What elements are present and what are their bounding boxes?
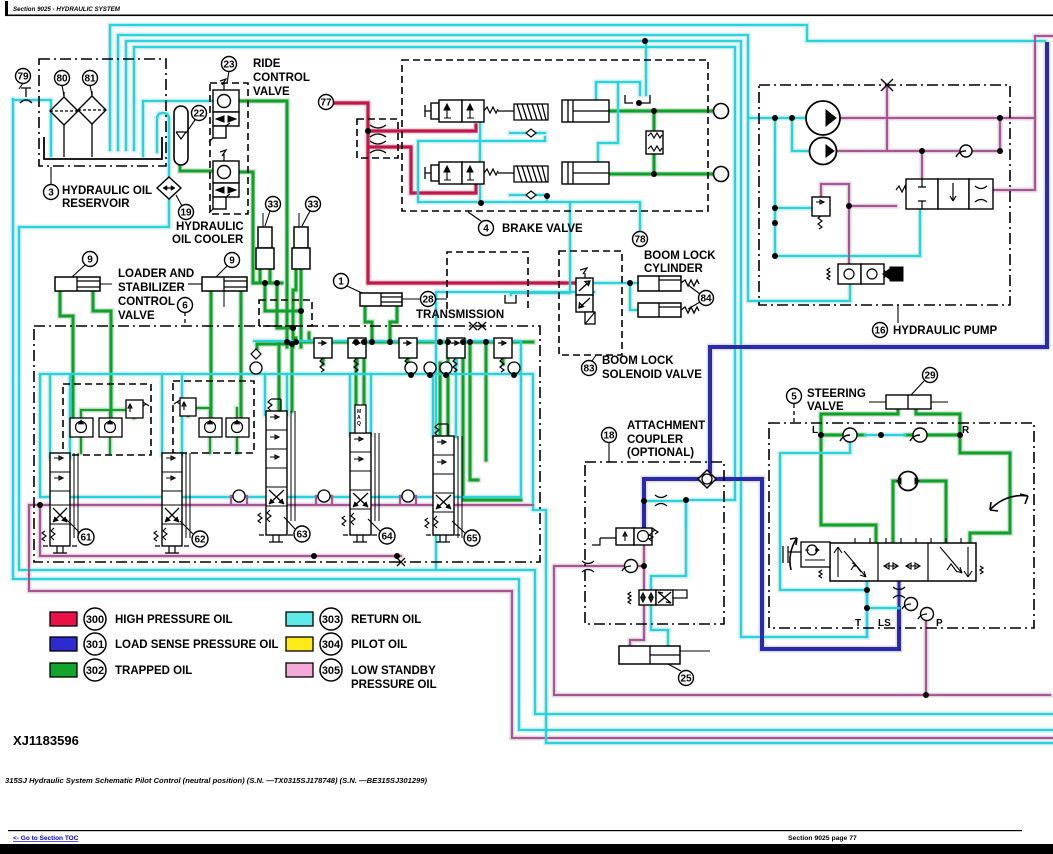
node callout 9 left xyxy=(72,265,85,277)
node callout 16 xyxy=(897,305,899,323)
node 61 pilot sub-box xyxy=(63,384,151,455)
node callout 6 xyxy=(184,312,186,326)
wire pink standby risers xyxy=(60,505,444,520)
valve stack 63 xyxy=(258,399,295,542)
svg-text:L: L xyxy=(812,425,818,436)
valve coupler pilot xyxy=(592,528,658,545)
wire green accumulator to ride 2 xyxy=(180,165,214,171)
svg-text:304: 304 xyxy=(322,639,341,651)
valve stack 62 xyxy=(154,453,190,553)
wire high pressure to lower brake xyxy=(370,147,476,193)
svg-text:25: 25 xyxy=(680,674,692,685)
wire green 61 pilot feeds xyxy=(81,410,134,453)
node callout 78 xyxy=(633,232,648,247)
node callout 83 xyxy=(592,355,596,361)
node attachment coupler box xyxy=(585,462,724,624)
svg-text:65: 65 xyxy=(466,534,478,545)
valve trans relief row xyxy=(314,338,512,372)
node hydraulic oil reservoir box xyxy=(39,59,166,166)
valve ride control lower xyxy=(209,150,239,213)
valve pump unloader xyxy=(827,264,903,284)
wire load sense coupler to LS port xyxy=(716,479,899,649)
wire green ride control 1 down xyxy=(238,101,287,347)
svg-text:RIDE: RIDE xyxy=(253,58,281,70)
cylinder boom lock lower xyxy=(638,303,699,317)
valve stack 61 xyxy=(42,453,78,553)
svg-text:BOOM LOCK: BOOM LOCK xyxy=(644,250,716,262)
svg-text:9: 9 xyxy=(87,255,93,266)
node callout 65 xyxy=(452,521,465,533)
node callout 25 xyxy=(668,664,681,671)
node 61 pilot shuttles xyxy=(70,400,149,437)
svg-text:3: 3 xyxy=(48,188,54,199)
svg-text:R: R xyxy=(962,425,970,436)
svg-text:80: 80 xyxy=(56,74,68,85)
svg-text:HYDRAULIC: HYDRAULIC xyxy=(176,221,244,233)
valve brake lower unit xyxy=(425,162,609,184)
node transmission port bracket xyxy=(505,295,516,303)
valve ride control upper 23 xyxy=(209,79,239,142)
wire green ride control 2 down xyxy=(238,172,253,283)
wire left return rail 2 from cooler xyxy=(19,119,1053,714)
wire return bundle B to pump suction xyxy=(118,35,850,301)
node pink restrictor xyxy=(582,561,594,572)
node 62 pilot sub-box xyxy=(173,381,254,453)
node steering check P1 xyxy=(905,598,918,611)
node reservoir tank xyxy=(44,137,162,159)
wire green manifold top rail xyxy=(287,338,533,342)
wire load sense to coupler xyxy=(708,347,712,471)
svg-text:(OPTIONAL): (OPTIONAL) xyxy=(627,447,694,459)
svg-text:1: 1 xyxy=(338,277,344,288)
node callout 5 xyxy=(793,404,795,423)
svg-text:RESERVOIR: RESERVOIR xyxy=(62,198,130,210)
svg-text:4: 4 xyxy=(483,224,489,235)
pump gerotor steering xyxy=(899,472,918,491)
wire left return rail 1 xyxy=(13,99,1053,730)
svg-text:6: 6 xyxy=(182,301,188,312)
svg-text:61: 61 xyxy=(80,533,92,544)
svg-text:XJ1183596: XJ1183596 xyxy=(13,733,79,748)
node callout 79 xyxy=(19,83,23,89)
wire green manifold drops 63 xyxy=(279,342,292,411)
valve relief A xyxy=(314,338,332,358)
svg-text:303: 303 xyxy=(322,614,340,626)
svg-text:COUPLER: COUPLER xyxy=(627,434,684,446)
svg-text:VALVE: VALVE xyxy=(807,401,844,413)
svg-text:PRESSURE OIL: PRESSURE OIL xyxy=(351,679,437,691)
node callout 28 xyxy=(402,298,447,300)
node steering arc left xyxy=(790,538,797,570)
node brake valve box xyxy=(402,60,708,211)
node 62 pilot shuttles xyxy=(174,398,249,437)
svg-text:CONTROL: CONTROL xyxy=(118,296,175,308)
svg-text:HIGH PRESSURE OIL: HIGH PRESSURE OIL xyxy=(115,614,233,626)
node plugged ports X xyxy=(469,322,486,330)
node transmission box xyxy=(447,252,528,309)
filter 80 xyxy=(50,92,78,157)
node boom lock solenoid box xyxy=(559,251,622,355)
node steering check R xyxy=(913,428,927,442)
accumulator 22 xyxy=(174,106,188,165)
valve pump compensator xyxy=(896,179,993,209)
node loader control valve box xyxy=(34,326,540,562)
wire low standby steering P drop xyxy=(925,616,927,695)
pump secondary xyxy=(810,138,837,165)
wire return bundle C to steering T xyxy=(126,41,867,637)
node callout 33 right xyxy=(302,211,310,226)
wire green gerotor loop xyxy=(893,481,946,543)
svg-text:83: 83 xyxy=(583,364,595,375)
node legend swatch 305 xyxy=(286,663,313,677)
svg-text:5: 5 xyxy=(791,392,797,403)
wire cyan boom lock to cylinders xyxy=(593,283,638,310)
svg-text:84: 84 xyxy=(700,294,712,305)
svg-text:23: 23 xyxy=(223,60,235,71)
cylinder 25 xyxy=(619,646,710,664)
node oil cooler 19 xyxy=(157,177,181,199)
node coupler check diamond xyxy=(698,470,716,488)
wire cyan brake bottom return xyxy=(418,122,640,231)
wire green brake to wheels bottom xyxy=(609,172,714,175)
svg-text:300: 300 xyxy=(86,614,104,626)
wire magenta pump pressure out xyxy=(832,85,1035,179)
svg-text:81: 81 xyxy=(84,74,96,85)
svg-text:16: 16 xyxy=(874,326,886,337)
wire green steering top R xyxy=(905,433,960,436)
svg-text:18: 18 xyxy=(603,431,615,442)
node callout 1 xyxy=(347,286,362,293)
valve steering main block xyxy=(819,538,983,581)
valve brake upper unit xyxy=(425,100,609,122)
wire high pressure from 77 xyxy=(334,103,476,131)
cylinder 33 left xyxy=(256,213,274,269)
node loader standby checks xyxy=(231,490,416,505)
svg-text:19: 19 xyxy=(180,208,192,219)
cylinder 33 right xyxy=(292,213,310,269)
svg-text:78: 78 xyxy=(634,235,646,246)
node restrictor pair 77 xyxy=(370,125,386,153)
svg-text:STABILIZER: STABILIZER xyxy=(118,282,186,294)
svg-text:HYDRAULIC OIL: HYDRAULIC OIL xyxy=(62,185,152,197)
wire pink loader standby rail xyxy=(40,505,533,556)
node plug X bottom xyxy=(397,558,405,566)
svg-text:LOW STANDBY: LOW STANDBY xyxy=(351,665,436,677)
node coupler restrictor xyxy=(655,495,667,506)
node steering check P2 xyxy=(921,608,934,621)
wire cyan loader right drop to bottom xyxy=(533,497,1053,743)
wire load sense main xyxy=(710,44,1047,347)
node wheel brake top xyxy=(714,104,729,119)
svg-text:BOOM LOCK: BOOM LOCK xyxy=(602,355,674,367)
node callout 22 xyxy=(186,120,195,133)
svg-text:TRANSMISSION: TRANSMISSION xyxy=(416,309,504,321)
wire green 33 lower manifold xyxy=(257,333,318,352)
node brake restrictor box xyxy=(357,119,398,158)
valve steering amplifier xyxy=(783,542,830,567)
valve pump relief xyxy=(812,197,830,229)
wire green steering right loop xyxy=(960,435,1010,543)
wire return bundle D to attachment xyxy=(134,47,735,526)
wire reservoir suction to ride valve xyxy=(143,101,214,156)
valve relief C xyxy=(399,338,417,358)
wire cyan brake drain riser xyxy=(569,203,572,293)
svg-text:CONTROL: CONTROL xyxy=(253,72,310,84)
wire load sense into coupler valve xyxy=(644,479,700,528)
valve relief D xyxy=(447,338,465,358)
node callout 77 xyxy=(319,95,334,110)
filter 81 xyxy=(78,91,106,157)
node pump check valve xyxy=(960,145,972,157)
wire low standby rail left xyxy=(29,505,1053,738)
wire green 33 drops xyxy=(265,269,301,347)
svg-text:22: 22 xyxy=(193,109,205,120)
svg-text:VALVE: VALVE xyxy=(253,86,290,98)
svg-text:63: 63 xyxy=(296,530,308,541)
wire green 62 pilot feeds xyxy=(188,408,237,453)
node callout 29 xyxy=(911,381,924,395)
svg-text:315SJ Hydraulic System Schemat: 315SJ Hydraulic System Schematic Pilot C… xyxy=(5,776,428,785)
node pink check xyxy=(625,560,638,573)
svg-text:33: 33 xyxy=(267,200,279,211)
wire cyan loader return rail mid xyxy=(40,341,533,497)
svg-text:LS: LS xyxy=(878,618,891,629)
wire high pressure to boom lock xyxy=(368,131,576,283)
svg-text:VALVE: VALVE xyxy=(118,310,155,322)
node pump plug X xyxy=(881,79,893,91)
svg-text:29: 29 xyxy=(924,371,936,382)
wire cyan pump drains xyxy=(775,118,920,256)
node steering check L xyxy=(843,428,857,442)
wire 79 stub xyxy=(13,100,51,156)
svg-text:Section 9025 page 77: Section 9025 page 77 xyxy=(788,835,857,842)
node legend swatch 302 xyxy=(50,663,77,677)
node brake drain check xyxy=(526,129,536,199)
wire cyan transmission port xyxy=(511,293,570,295)
node callout 23 xyxy=(227,71,229,83)
svg-text:HYDRAULIC PUMP: HYDRAULIC PUMP xyxy=(893,325,997,337)
svg-text:301: 301 xyxy=(86,639,104,651)
node callout 19 xyxy=(176,195,182,206)
node legend swatch 301 xyxy=(50,637,77,651)
node legend swatch 300 xyxy=(50,612,77,626)
node callout 4 xyxy=(468,212,481,221)
svg-text:T: T xyxy=(855,618,861,629)
cylinder torque converter 1 xyxy=(360,293,414,306)
svg-text:77: 77 xyxy=(320,98,332,109)
svg-text:ATTACHMENT: ATTACHMENT xyxy=(627,420,705,432)
wire magenta pump compensator xyxy=(821,184,896,264)
node breather 79 tick xyxy=(20,88,32,103)
svg-text:28: 28 xyxy=(422,295,434,306)
node hydraulic pump box xyxy=(759,85,1010,305)
wire cyan loader valve loops xyxy=(50,341,456,458)
wire cyan steering left return xyxy=(780,441,899,608)
wire green brake shuttle riser xyxy=(652,111,655,174)
wire green manifold drops 64 xyxy=(356,342,364,433)
wire green manifold drops 65 xyxy=(440,342,448,436)
node callout 3 xyxy=(50,167,52,184)
svg-text:<- Go to Section TOC: <- Go to Section TOC xyxy=(13,835,79,842)
node steering valve box xyxy=(769,423,1034,628)
valve relief B xyxy=(348,338,366,358)
svg-text:RETURN OIL: RETURN OIL xyxy=(351,614,421,626)
wire cyan steering tank line xyxy=(866,590,869,637)
pump main 16 xyxy=(806,101,840,135)
footer xyxy=(0,776,1053,854)
wire cyan boom lock return xyxy=(436,292,594,570)
node callout 33 left xyxy=(265,211,270,226)
wire green transmission inlet legs xyxy=(365,305,397,338)
cylinder boom lock upper 84 xyxy=(638,276,699,291)
wire green 33 manifold xyxy=(253,269,282,283)
wire green 9L cylinder legs xyxy=(60,291,111,418)
svg-text:302: 302 xyxy=(86,665,104,677)
wire green relief row springs rail xyxy=(323,358,503,364)
cylinder 9 left xyxy=(55,277,112,291)
wire low standby bottom rail xyxy=(554,566,1050,695)
cylinder steering 29 xyxy=(869,395,948,409)
node legend swatch 304 xyxy=(286,637,313,651)
wire magenta pump right edge xyxy=(993,36,1053,190)
wire cyan brake internals top xyxy=(596,82,640,166)
svg-text:9: 9 xyxy=(229,256,235,267)
wire cyan brake valve top port xyxy=(645,41,648,95)
header bar xyxy=(5,1,1053,16)
svg-text:LOADER AND: LOADER AND xyxy=(118,268,194,280)
valve stack 64 xyxy=(342,405,379,542)
wire green 9R cylinder legs xyxy=(211,291,241,418)
valve coupler solenoid xyxy=(628,590,687,605)
node callout 84 xyxy=(688,285,700,309)
svg-text:CYLINDER: CYLINDER xyxy=(644,263,703,275)
node callout 80 xyxy=(62,85,64,96)
svg-text:PILOT OIL: PILOT OIL xyxy=(351,639,407,651)
node callout 63 xyxy=(284,517,295,529)
node callout 81 xyxy=(90,85,92,95)
wire green right work ports xyxy=(463,342,521,500)
node 33 pressure sub-box xyxy=(259,300,312,326)
wire cyan coupler net xyxy=(644,501,686,647)
node junction dots xyxy=(37,38,1003,698)
node callout 18 xyxy=(608,443,610,462)
node legend swatch 303 xyxy=(286,612,313,626)
node steering arc right xyxy=(990,494,1028,511)
node callout 9 right xyxy=(216,266,227,277)
wire return oil top bundle A xyxy=(110,25,1045,150)
svg-text:Q: Q xyxy=(357,421,361,427)
wire green brake to wheels top xyxy=(609,109,714,112)
wire green steering left loop xyxy=(821,435,876,543)
node ride control valve box xyxy=(210,83,248,214)
svg-text:305: 305 xyxy=(322,665,340,677)
wire green steering cylinder legs xyxy=(821,408,960,435)
cylinder 9 right xyxy=(190,277,247,307)
node brake tank ports xyxy=(625,95,650,103)
svg-text:LOAD SENSE PRESSURE OIL: LOAD SENSE PRESSURE OIL xyxy=(115,639,279,651)
valve boom lock solenoid 83 xyxy=(576,268,595,324)
svg-text:62: 62 xyxy=(194,535,206,546)
svg-text:79: 79 xyxy=(17,72,29,83)
wire pink coupler drop to cyl 25 xyxy=(630,545,644,647)
node wheel brake bottom xyxy=(714,167,729,182)
wire LS below steering valve xyxy=(898,581,901,608)
svg-text:OIL COOLER: OIL COOLER xyxy=(172,234,244,246)
svg-text:P: P xyxy=(936,618,943,629)
node callout 64 xyxy=(368,519,380,531)
node callout 62 xyxy=(180,521,193,534)
wire cyan steering mid top xyxy=(865,434,905,437)
valve stack 65 xyxy=(425,424,462,542)
svg-text:33: 33 xyxy=(307,200,319,211)
svg-text:Section 9025 - HYDRAULIC SYSTE: Section 9025 - HYDRAULIC SYSTEM xyxy=(13,6,121,13)
svg-text:STEERING: STEERING xyxy=(807,388,866,400)
node callout 61 xyxy=(66,519,79,532)
node trans check valves xyxy=(250,349,520,374)
svg-text:TRAPPED OIL: TRAPPED OIL xyxy=(115,665,192,677)
valve brake shuttle xyxy=(646,131,663,154)
svg-text:BRAKE VALVE: BRAKE VALVE xyxy=(502,223,583,235)
valve relief E xyxy=(494,338,512,358)
wire green steering top L xyxy=(821,433,865,436)
node steering LS restrictor xyxy=(893,587,905,598)
svg-text:64: 64 xyxy=(381,532,393,543)
svg-text:SOLENOID VALVE: SOLENOID VALVE xyxy=(602,369,702,381)
